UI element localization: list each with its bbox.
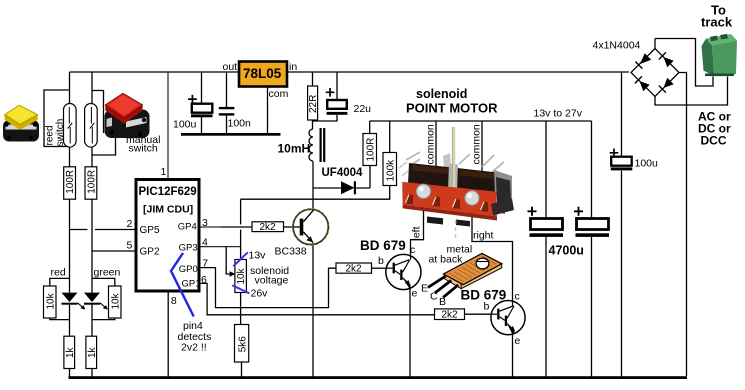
- svg-text:red: red: [51, 267, 66, 279]
- svg-text:2v2 !!: 2v2 !!: [181, 342, 207, 354]
- svg-text:100n: 100n: [228, 118, 252, 130]
- resistor 1k chain 1: [64, 336, 76, 368]
- wire: bridge right output down: [679, 73, 687, 377]
- svg-text:2k2: 2k2: [346, 264, 363, 275]
- capacitor C 100u electrolytic: [188, 95, 213, 118]
- svg-text:c: c: [410, 244, 415, 256]
- wire: bridge bottom to track terminal right: [655, 77, 728, 106]
- wire: bridge top stub: [654, 39, 656, 49]
- wire: reed switch 2 top lead: [91, 72, 93, 104]
- resistor 2k2 base of BD679 no2: [435, 309, 465, 321]
- blue callout line pin4: [171, 253, 194, 317]
- inductor L 10mH with core: [309, 128, 324, 162]
- svg-text:left: left: [411, 226, 423, 240]
- resistor 1k chain 2: [86, 336, 98, 368]
- resistor 100R motor feed: [363, 134, 377, 166]
- wire: 100R motor resistor bottom lead: [369, 166, 371, 189]
- point motor photograph: [399, 127, 514, 240]
- svg-text:8: 8: [171, 295, 177, 307]
- svg-text:BC338: BC338: [275, 246, 307, 258]
- svg-text:13v: 13v: [249, 250, 267, 262]
- resistor 5k6: [235, 325, 249, 363]
- svg-text:common: common: [471, 124, 483, 164]
- svg-text:78L05: 78L05: [243, 66, 282, 81]
- LED green: [84, 293, 108, 310]
- svg-text:BD 679: BD 679: [360, 238, 406, 253]
- svg-text:GP1: GP1: [182, 278, 201, 289]
- svg-text:GP4: GP4: [178, 222, 197, 233]
- svg-text:2: 2: [127, 218, 133, 230]
- svg-text:in: in: [289, 61, 297, 73]
- svg-text:26v: 26v: [251, 288, 269, 300]
- svg-text:GP0: GP0: [179, 264, 198, 275]
- wire: 22u leads to 22R bottom: [313, 72, 338, 121]
- svg-text:green: green: [94, 267, 121, 279]
- wire: motor common left: [435, 121, 437, 166]
- svg-text:100R: 100R: [366, 138, 377, 162]
- svg-text:22u: 22u: [354, 103, 372, 115]
- wire: GP3 pin4 wire: [201, 246, 241, 248]
- svg-text:right: right: [473, 230, 494, 242]
- svg-text:4700u: 4700u: [549, 244, 584, 258]
- wire: red LED 10k parallel leads: [50, 278, 70, 319]
- svg-text:voltage: voltage: [255, 275, 289, 287]
- svg-text:B: B: [439, 296, 446, 308]
- resistor 10k red LED: [44, 286, 57, 318]
- svg-text:100R: 100R: [65, 170, 76, 194]
- wire: pot top feed with hop over GP4 wire: [240, 199, 242, 259]
- wire: reed switch 2 bottom lead: [91, 147, 93, 167]
- svg-text:common: common: [425, 124, 437, 164]
- svg-text:[JIM CDU]: [JIM CDU]: [143, 204, 193, 216]
- svg-text:E: E: [421, 283, 428, 295]
- resistor 100R reed chain 1: [64, 167, 76, 199]
- capacitor C 4700u no2: [574, 207, 609, 237]
- blue mark 26v on pot: [232, 285, 249, 293]
- resistor 22R: [308, 86, 320, 120]
- wire: reed switch 1 top lead: [69, 72, 71, 104]
- wire: pot wiper connection: [226, 247, 230, 274]
- bridge diode upper-left: [635, 53, 651, 68]
- svg-text:100k: 100k: [386, 159, 397, 182]
- svg-text:5k6: 5k6: [237, 336, 248, 353]
- svg-text:7: 7: [202, 258, 208, 270]
- svg-text:100u: 100u: [635, 158, 659, 170]
- wire: 2k2 to BC338 base: [284, 226, 294, 228]
- wire: yellow push button branch: [44, 90, 70, 147]
- svg-text:100R: 100R: [86, 170, 97, 194]
- resistor 2k2 base of BD679 no1: [336, 263, 372, 275]
- wire: chain1 LED to 1k and 1k to ground: [69, 305, 71, 377]
- wire: motor right terminal to BD679 no2 collector: [472, 204, 513, 301]
- reed switch 1 capsule: [64, 104, 77, 148]
- svg-text:1k: 1k: [87, 346, 98, 358]
- capacitor C 4700u no1: [528, 207, 564, 237]
- svg-text:solenoid: solenoid: [416, 87, 467, 101]
- svg-text:10k: 10k: [45, 292, 56, 309]
- ground bottom rail: [69, 376, 688, 379]
- TO-126 package metal at back: [428, 250, 508, 298]
- capacitor C 22u electrolytic: [326, 88, 348, 115]
- wire: chain2 LED to 1k and 1k to ground: [91, 305, 93, 377]
- transistor BD679 no1 darlington: [386, 254, 421, 289]
- LED red: [62, 293, 86, 310]
- svg-text:b: b: [484, 301, 490, 313]
- regulator 78L05: [239, 62, 287, 87]
- svg-text:at back: at back: [429, 254, 464, 266]
- wire: GP2 pin5 wire: [92, 250, 135, 252]
- svg-text:13v to 27v: 13v to 27v: [534, 108, 583, 120]
- bridge diode lower-right: [659, 78, 674, 93]
- capacitor C 100u smoothing: [610, 149, 633, 171]
- svg-text:switch: switch: [129, 143, 158, 155]
- wire: 4700u no1 leads: [545, 121, 547, 377]
- wire: reed switch 1 bottom lead: [69, 147, 71, 167]
- yellow push button photo: [3, 105, 39, 141]
- reed switch 2 capsule: [85, 104, 98, 148]
- resistor 10k green LED: [109, 286, 122, 318]
- svg-text:com: com: [269, 88, 289, 100]
- wire: capacitor 100u leads: [201, 72, 203, 134]
- wire: PIC pin1 supply lead: [167, 72, 169, 179]
- svg-text:switch: switch: [55, 119, 66, 147]
- red push button photo: [105, 93, 150, 138]
- wire: PIC pin8 ground lead: [167, 293, 169, 378]
- wire: main top supply rail: [70, 71, 630, 73]
- svg-text:1k: 1k: [65, 346, 76, 358]
- wire: GP0 pin7 wire to 2k2: [201, 268, 337, 308]
- wire: 78L05 com lead: [267, 87, 269, 134]
- svg-text:track: track: [701, 15, 733, 30]
- svg-text:C: C: [430, 291, 438, 303]
- wire: 22R leads: [312, 72, 314, 129]
- svg-text:10k: 10k: [110, 292, 121, 309]
- wire: BC338 emitter to ground: [312, 245, 314, 378]
- capacitor C 100n: [219, 107, 235, 116]
- wire: UF4004 diode run: [313, 187, 370, 189]
- svg-text:e: e: [412, 288, 418, 300]
- IC PIC12F629 JIM CDU: [136, 180, 201, 292]
- svg-text:3: 3: [202, 217, 208, 229]
- terminal block to track: [702, 34, 738, 77]
- potentiometer 10k solenoid voltage: [230, 260, 248, 293]
- svg-text:10k: 10k: [236, 267, 247, 284]
- wire: GP1 pin6 wire to 2k2: [201, 283, 435, 314]
- ground bar of 78L05 section: [181, 133, 281, 136]
- svg-text:UF4004: UF4004: [322, 167, 364, 179]
- bridge diode upper-right: [659, 52, 674, 67]
- resistor 2k2 base of BC338: [252, 222, 284, 233]
- svg-text:DCC: DCC: [701, 134, 727, 148]
- diode bridge diamond outline: [631, 49, 679, 97]
- wire: motor common right: [481, 121, 483, 171]
- svg-text:2k2: 2k2: [442, 310, 459, 321]
- blue mark 13v on pot: [233, 252, 248, 266]
- wire: BC338 collector lead: [312, 188, 314, 209]
- svg-text:GP2: GP2: [140, 247, 160, 258]
- wire: pot bottom to 5k6 and ground: [240, 293, 243, 378]
- wire: motor voltage rail 13v-27v: [370, 120, 592, 122]
- wire: motor left terminal to BD679 no1 collector: [411, 197, 424, 255]
- wire: red push button branch top: [92, 91, 104, 134]
- svg-text:10mH: 10mH: [278, 142, 311, 156]
- svg-text:PIC12F629: PIC12F629: [139, 186, 197, 198]
- svg-text:4: 4: [202, 237, 208, 249]
- wire: 2k2 to BD679 no2 base: [465, 313, 492, 315]
- wire: BD679 no1 emitter to ground: [409, 290, 411, 378]
- svg-text:e: e: [515, 335, 521, 347]
- wire: 100u smoothing cap leads: [621, 72, 623, 377]
- diode UF4004: [341, 181, 356, 194]
- wire: 100k top lead: [389, 121, 391, 153]
- wire: 2k2 to BD679 no1 base: [372, 267, 387, 269]
- wire: GP5 pin2 wire with hop over chain2: [70, 229, 136, 231]
- svg-text:100u: 100u: [173, 119, 197, 131]
- svg-text:c: c: [515, 291, 520, 303]
- svg-text:2k2: 2k2: [260, 222, 277, 233]
- wire: 100R motor resistor top lead: [369, 121, 371, 134]
- svg-text:5: 5: [127, 240, 133, 252]
- wire: green LED 10k parallel leads: [92, 278, 115, 319]
- bridge diode lower-left: [635, 76, 650, 91]
- wire: red push button branch bottom: [92, 138, 116, 155]
- transistor BD679 no2 darlington: [491, 301, 525, 335]
- wire: chain1 between 100R and red LED: [69, 199, 71, 292]
- resistor 100R chain 2: [85, 167, 97, 199]
- svg-text:POINT MOTOR: POINT MOTOR: [406, 101, 498, 116]
- wire: GP4 pin3 wire green stub: [201, 226, 222, 228]
- svg-text:6: 6: [201, 274, 207, 286]
- wire: inductor bottom to diode junction: [312, 162, 314, 189]
- svg-text:22R: 22R: [308, 95, 319, 113]
- resistor 100k divider: [383, 153, 397, 186]
- transistor BC338 NPN: [292, 209, 329, 246]
- svg-text:4x1N4004: 4x1N4004: [593, 40, 641, 52]
- svg-text:GP3: GP3: [179, 242, 198, 253]
- wire: 4700u no2 leads: [591, 121, 593, 377]
- svg-text:b: b: [378, 255, 384, 267]
- wire: chain2 between 100R and green LED: [91, 199, 93, 292]
- wire: capacitor 100n leads: [226, 72, 228, 134]
- wire: BD679 no2 emitter to ground: [512, 334, 514, 377]
- wire: bridge top to track terminal left: [655, 39, 713, 87]
- wire: GP4 pin3 wire to 2k2: [221, 226, 252, 228]
- svg-text:out: out: [223, 61, 238, 73]
- svg-text:1: 1: [161, 166, 167, 178]
- svg-text:GP5: GP5: [140, 225, 160, 236]
- wire: 100k bottom to pot feed: [241, 186, 390, 200]
